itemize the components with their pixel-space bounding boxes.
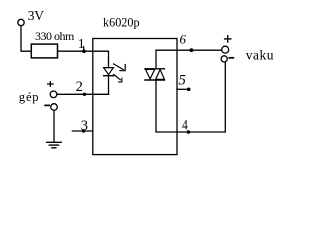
- light emission arrow 2 head: [119, 78, 122, 82]
- light emission arrow 2 shaft: [114, 75, 121, 80]
- wire pin 1 label stem to junction: [83, 47, 85, 52]
- label − (gép) minus sign: [44, 104, 50, 106]
- svg-text:330 ohm: 330 ohm: [35, 29, 75, 43]
- terminal gép +: [50, 91, 57, 98]
- wire LED cathode down to pin 2 rail: [108, 76, 110, 95]
- svg-text:3V: 3V: [28, 8, 44, 23]
- light emission arrow 1 head: [120, 65, 125, 71]
- wire pin 3 stub: [72, 130, 92, 132]
- svg-text:4: 4: [182, 118, 188, 134]
- node pin 1 junction dot: [82, 49, 86, 53]
- wire resistor to LED anode (pin 1): [58, 51, 109, 67]
- wire from 3V terminal down and to resistor: [21, 26, 31, 51]
- svg-text:3: 3: [81, 118, 88, 134]
- resistor R1 330 ohm body: [31, 44, 57, 58]
- svg-text:k6020p: k6020p: [103, 15, 140, 29]
- svg-text:vaku: vaku: [246, 47, 274, 62]
- wire pin 6: triac top lead to vaku + terminal: [156, 50, 222, 69]
- terminal 3V battery +: [18, 19, 24, 25]
- wire pin 2 from gép + terminal to LED cathode: [57, 93, 109, 95]
- ground symbol: [47, 142, 62, 148]
- triac right triangle (up): [156, 70, 165, 80]
- optocoupler IC U1 k6020p body: [93, 39, 177, 155]
- wire pin 4: triac bottom lead to vaku − terminal: [156, 62, 225, 132]
- wire gép − terminal down to ground: [53, 110, 55, 142]
- svg-text:2: 2: [76, 79, 83, 95]
- node pin 4 wire dot: [187, 130, 191, 134]
- terminal gép −: [51, 104, 58, 111]
- label + (gép) plus sign: [47, 81, 54, 87]
- light emission arrow 1 shaft: [114, 64, 124, 70]
- wire pin 5 stub: [177, 88, 188, 90]
- triac/diac bottom bar: [145, 79, 165, 81]
- terminal vaku +: [222, 46, 229, 53]
- label − (vaku) minus sign: [228, 57, 234, 59]
- triac/diac top bar: [145, 68, 165, 70]
- LED D1 triangle: [104, 68, 114, 75]
- node pin 5 end dot: [187, 88, 191, 92]
- node pin 6 wire dot: [190, 48, 194, 52]
- label + (vaku) plus sign: [224, 35, 232, 43]
- svg-text:1: 1: [78, 37, 85, 52]
- triac left triangle (down): [146, 69, 155, 79]
- svg-text:6: 6: [180, 32, 187, 47]
- terminal vaku −: [221, 56, 227, 62]
- svg-text:gép: gép: [19, 90, 39, 104]
- svg-text:5: 5: [178, 73, 186, 89]
- node pin 2 junction dot: [83, 93, 86, 96]
- node pin 3 junction dot: [82, 129, 85, 132]
- LED D1 cathode bar: [104, 75, 114, 77]
